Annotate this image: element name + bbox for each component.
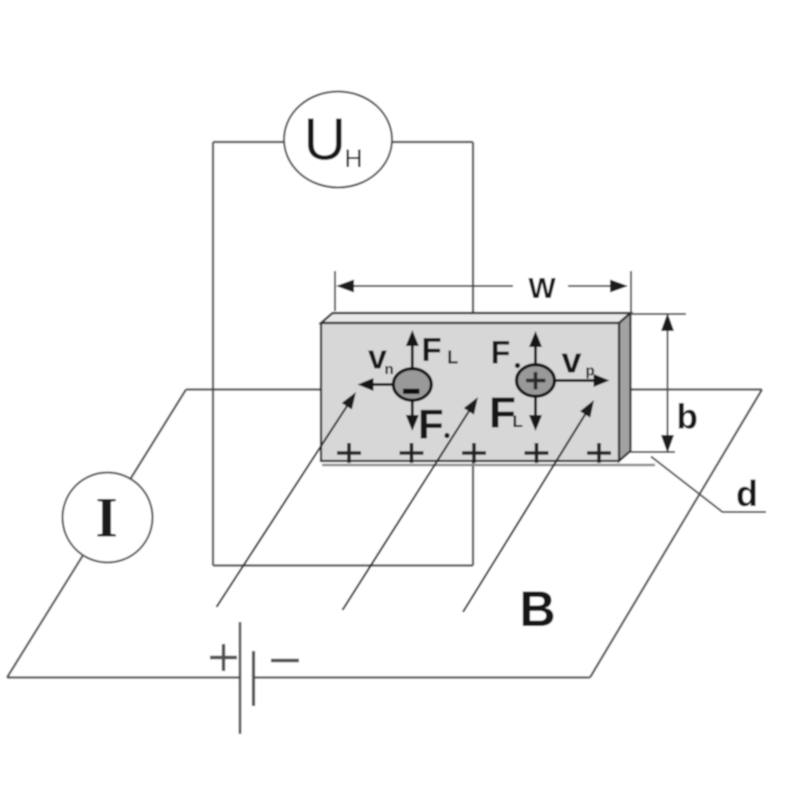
svg-text:v: v xyxy=(562,339,582,380)
svg-text:L: L xyxy=(513,412,523,431)
svg-text:U: U xyxy=(304,107,347,173)
svg-text:F: F xyxy=(491,335,511,371)
svg-text:F: F xyxy=(418,401,444,448)
svg-text:B: B xyxy=(519,581,555,637)
svg-text:n: n xyxy=(385,361,394,378)
svg-text:d: d xyxy=(736,473,758,514)
svg-text:W: W xyxy=(528,273,556,305)
svg-text:F: F xyxy=(422,331,442,368)
svg-text:I: I xyxy=(96,487,118,550)
svg-text:b: b xyxy=(677,397,698,436)
svg-text:H: H xyxy=(345,145,363,173)
svg-text:p: p xyxy=(586,363,595,380)
svg-text:L: L xyxy=(447,348,458,368)
